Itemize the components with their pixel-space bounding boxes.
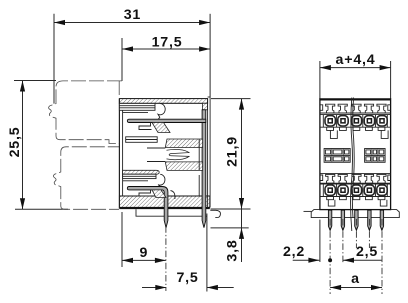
right inner wall lines	[198, 139, 200, 196]
centerline front pin 4	[368, 219, 370, 248]
front view body outline	[320, 99, 391, 210]
tab row 1	[327, 127, 388, 138]
svg-text:3,8: 3,8	[225, 239, 241, 261]
dimension 7,5 bottom of side view (outside arrows)	[142, 214, 234, 292]
front view pin F3	[355, 210, 358, 230]
screw terminal T7	[338, 185, 348, 195]
screw terminal T3	[351, 116, 361, 126]
slide bar upper	[126, 137, 158, 143]
vertical solder pin P2 (front, down)	[202, 110, 206, 228]
screw terminal T9	[364, 185, 374, 195]
lower contact pin P3 horizontal with elbow down	[127, 187, 168, 228]
svg-text:25,5: 25,5	[7, 127, 23, 158]
castellated row 2	[320, 174, 391, 184]
cavity line under laminated bar upper	[123, 111, 148, 113]
castellated row 1	[320, 104, 391, 113]
dimension 25,5 vertical left	[7, 81, 68, 210]
centerline pin row 1 side view	[165, 214, 167, 291]
side view left wall	[119, 99, 122, 209]
side view bottom bar hatched	[119, 196, 209, 208]
dimension 2,2	[283, 220, 332, 263]
dimension a	[330, 271, 382, 290]
svg-text:2,2: 2,2	[283, 244, 305, 260]
upper contact pin P1 horizontal	[127, 119, 206, 122]
screw terminal T2	[338, 116, 348, 126]
screw terminal T10	[377, 185, 387, 195]
screw terminal T6	[325, 185, 335, 195]
svg-text:a+4,4: a+4,4	[336, 52, 376, 68]
vent grid right block	[365, 149, 386, 163]
laminated bar lower	[123, 174, 156, 178]
mid shelf hatched	[123, 170, 160, 174]
funnel curl lower	[158, 174, 165, 186]
tab row 2	[327, 197, 387, 207]
top bar right step block	[202, 103, 207, 110]
centerline front pin 3	[355, 219, 357, 248]
cavity line lower	[123, 180, 148, 182]
screw terminal T5	[377, 116, 387, 126]
elbow outer contour	[171, 191, 175, 200]
front view pin F4	[368, 210, 371, 230]
front view pin F2	[341, 210, 344, 230]
svg-text:9: 9	[139, 245, 148, 261]
dimension 9 bottom of side view	[122, 212, 166, 267]
vent grid left block	[324, 149, 350, 163]
svg-text:2,5: 2,5	[356, 244, 378, 260]
dimension 31 horizontal top	[54, 7, 210, 104]
screw terminal T4	[364, 116, 374, 126]
terminal band row 2	[320, 184, 391, 197]
fork contact block upper hatch	[165, 139, 202, 148]
funnel curl upper	[158, 104, 165, 120]
terminal band row 1	[320, 115, 391, 128]
screw terminal T1	[325, 116, 335, 126]
fork contact prongs	[147, 148, 189, 162]
front view pin F1	[328, 210, 331, 230]
dimension a+4,4 top of front view	[320, 52, 391, 99]
clamp under lower pin	[139, 190, 166, 198]
dashed plug outline upper level	[49, 81, 122, 144]
front view flange	[311, 210, 399, 218]
screw terminal T8	[351, 185, 361, 195]
svg-text:31: 31	[124, 7, 141, 23]
dimension 3,8 vertical pin protrusion	[211, 209, 249, 262]
dimension 2,5	[343, 244, 382, 263]
break line (wavy) through front view	[351, 98, 355, 232]
centerline front pin 2	[342, 219, 344, 263]
front face of side view	[208, 97, 211, 207]
dimension 21,9 vertical right of side view	[211, 99, 251, 209]
laminated bar upper	[119, 103, 155, 110]
svg-text:21,9: 21,9	[225, 136, 241, 167]
pcb reference line left of flange	[304, 210, 312, 212]
front view pin F5	[380, 210, 383, 230]
dimension 17,5 horizontal	[122, 34, 210, 81]
centerline front pin 5	[381, 219, 383, 294]
fork contact block lower hatch	[165, 162, 202, 171]
svg-text:17,5: 17,5	[152, 34, 183, 50]
clamp under upper pin	[139, 123, 170, 133]
side view housing top bar hatched	[119, 99, 207, 104]
dashed plug outline lower level	[53, 144, 119, 210]
svg-text:7,5: 7,5	[176, 270, 198, 286]
foot flange side view	[136, 209, 220, 217]
centerline front pin 1	[329, 219, 331, 294]
svg-text:a: a	[351, 271, 360, 287]
